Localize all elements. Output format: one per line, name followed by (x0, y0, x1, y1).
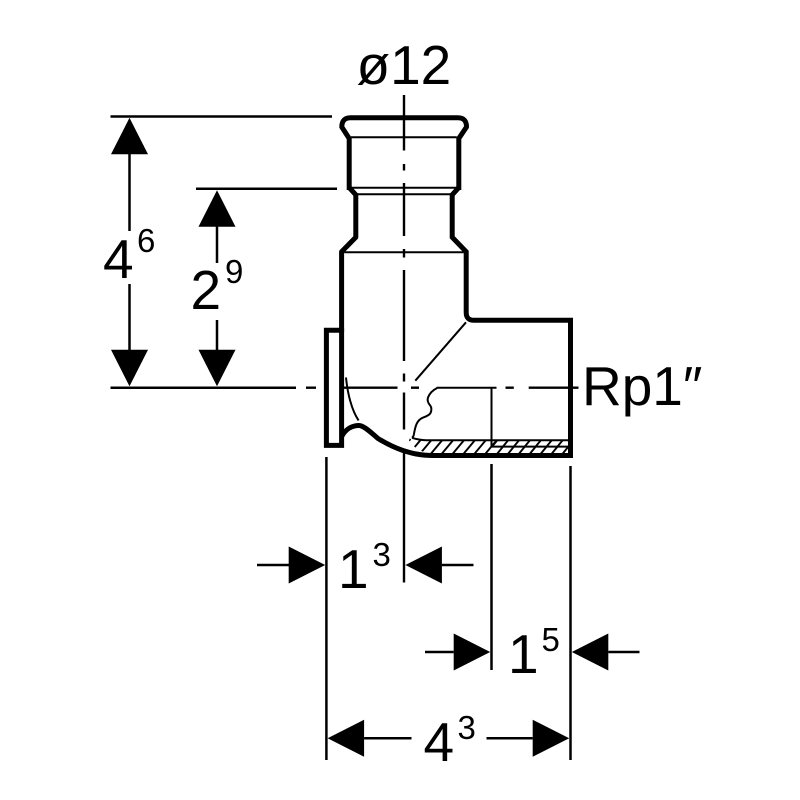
svg-text:3: 3 (373, 536, 391, 573)
vertical centerline (403, 95, 405, 583)
flare bottom inner line (344, 251, 463, 253)
extension line thread end (490, 464, 493, 670)
dimension text 4-6 (103, 222, 155, 290)
left profile: taper, neck, flare, body wall (342, 188, 356, 332)
extension line flange left (325, 457, 328, 760)
svg-text:1: 1 (338, 538, 369, 600)
extension line right end (569, 466, 572, 760)
svg-text:9: 9 (225, 253, 243, 290)
svg-text:6: 6 (137, 222, 155, 259)
extension line insertion depth (196, 188, 337, 191)
neck top inner line (356, 193, 452, 195)
svg-text:4: 4 (424, 711, 455, 773)
horizontal centerline (306, 387, 579, 389)
svg-text:1: 1 (508, 623, 539, 685)
flange (326, 330, 341, 445)
inner cone diagonal (415, 322, 466, 380)
dimension text 4-3 (424, 709, 476, 773)
hatch band midline (492, 446, 569, 448)
svg-text:3: 3 (458, 709, 476, 746)
dimension 1-3 arrows (257, 547, 474, 584)
dimension text 2-9 (191, 253, 244, 321)
svg-text:4: 4 (103, 228, 134, 290)
thread hatch band (398, 439, 580, 454)
right profile: taper, neck, flare, body, outlet and bottom sweep (342, 188, 571, 456)
extension line top edge (111, 115, 333, 118)
svg-text:2: 2 (191, 259, 222, 321)
bore line (437, 387, 497, 389)
dimension text 1-5 (508, 621, 560, 685)
label diameter 12 (357, 34, 452, 96)
svg-text:5: 5 (542, 621, 560, 658)
hatch band top line (412, 438, 568, 440)
label Rp1 inch (582, 355, 702, 417)
break wavy line (412, 388, 437, 438)
bead bottom inner line (351, 136, 457, 138)
socket bottom inner line (348, 187, 460, 189)
dimension text 1-3 (338, 536, 391, 600)
inner bend arc (346, 378, 359, 421)
svg-text:ø12: ø12 (357, 34, 452, 96)
press socket bead outline (342, 118, 467, 190)
dimension 4-6 stem and arrows (111, 118, 297, 388)
thread end line (491, 388, 493, 447)
dimension 4-3 arrows (328, 720, 570, 757)
svg-text:Rp1″: Rp1″ (582, 355, 702, 417)
dimension 1-5 arrows (425, 634, 640, 671)
dimension 2-9 stem and arrows (199, 190, 236, 386)
